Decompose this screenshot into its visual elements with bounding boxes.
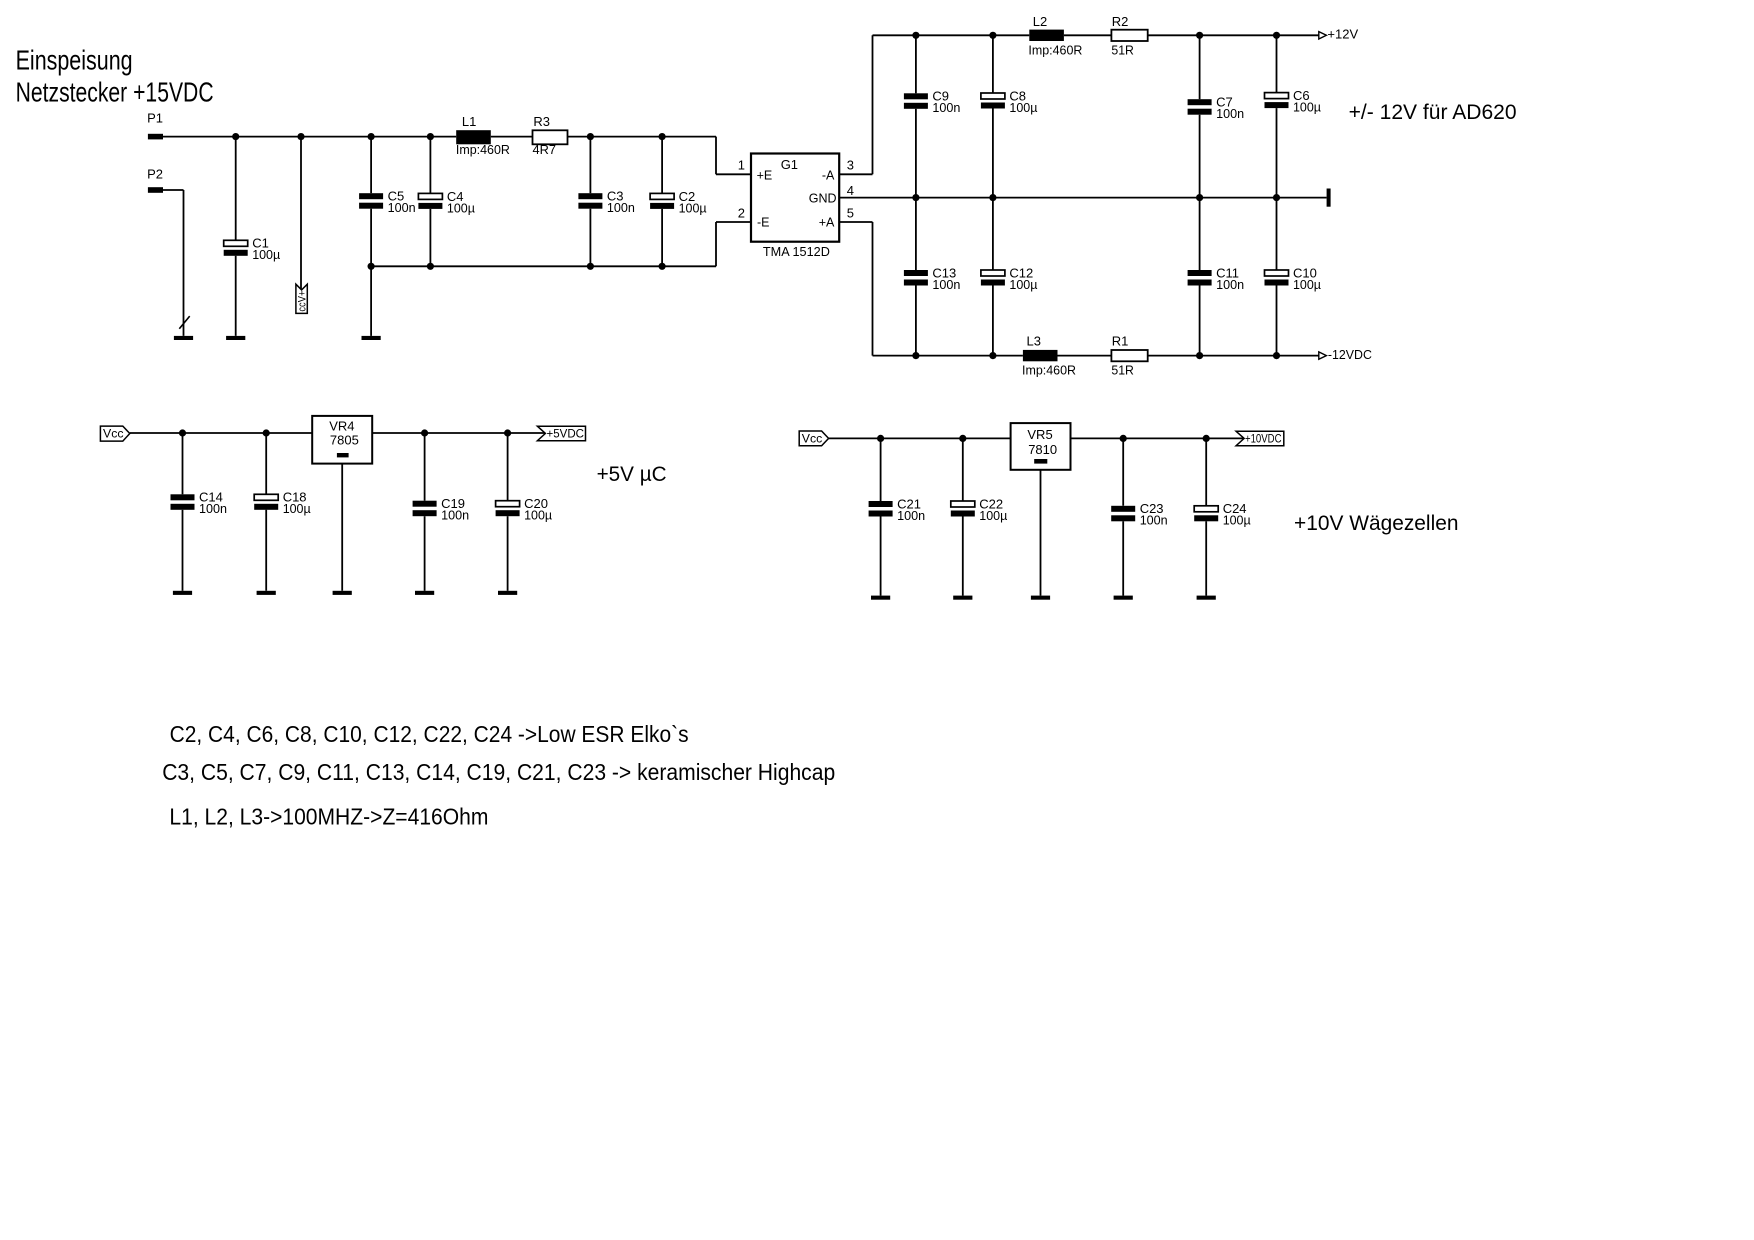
svg-text:100n: 100n	[199, 501, 227, 516]
svg-text:2: 2	[738, 205, 745, 220]
svg-text:R2: R2	[1112, 14, 1129, 29]
svg-text:100µ: 100µ	[252, 247, 280, 262]
svg-text:L3: L3	[1027, 334, 1041, 349]
svg-text:1: 1	[738, 158, 745, 173]
svg-text:GND: GND	[809, 191, 837, 205]
svg-text:+E: +E	[757, 168, 773, 182]
svg-text:Netzstecker +15VDC: Netzstecker +15VDC	[16, 76, 214, 107]
svg-text:L1: L1	[462, 114, 476, 129]
svg-text:100n: 100n	[932, 100, 960, 115]
svg-text:100n: 100n	[1216, 106, 1244, 121]
svg-text:Imp:460R: Imp:460R	[1022, 363, 1076, 378]
svg-text:100µ: 100µ	[1293, 100, 1321, 115]
svg-text:100n: 100n	[388, 200, 416, 215]
svg-text:Imp:460R: Imp:460R	[456, 142, 510, 157]
svg-text:100µ: 100µ	[679, 200, 707, 215]
svg-text:+/- 12V für AD620: +/- 12V für AD620	[1349, 101, 1517, 124]
svg-text:100µ: 100µ	[447, 200, 475, 215]
svg-text:100µ: 100µ	[283, 501, 311, 516]
svg-text:100n: 100n	[607, 200, 635, 215]
svg-text:100n: 100n	[1216, 277, 1244, 292]
svg-text:VR4: VR4	[329, 419, 354, 434]
svg-text:+5VDC: +5VDC	[547, 427, 585, 441]
svg-text:+10VDC: +10VDC	[1245, 434, 1282, 446]
svg-text:-12VDC: -12VDC	[1328, 347, 1372, 362]
svg-text:3: 3	[847, 158, 854, 173]
svg-text:P1: P1	[147, 110, 163, 125]
svg-text:100µ: 100µ	[1009, 100, 1037, 115]
svg-text:100n: 100n	[897, 508, 925, 523]
svg-text:+A: +A	[819, 215, 835, 229]
svg-text:P2: P2	[147, 166, 163, 181]
svg-text:100n: 100n	[441, 508, 469, 523]
svg-text:+5V µC: +5V µC	[597, 463, 667, 486]
svg-text:Imp:460R: Imp:460R	[1028, 43, 1082, 58]
svg-text:4R7: 4R7	[533, 142, 557, 157]
svg-text:L2: L2	[1033, 14, 1047, 29]
svg-text:5: 5	[847, 205, 854, 220]
svg-text:-A: -A	[822, 168, 835, 182]
svg-text:100µ: 100µ	[1009, 277, 1037, 292]
svg-text:+10V Wägezellen: +10V Wägezellen	[1294, 512, 1459, 535]
svg-text:Vcc: Vcc	[103, 427, 124, 441]
svg-text:VR5: VR5	[1027, 427, 1052, 442]
svg-text:C3, C5, C7, C9, C11, C13, C14,: C3, C5, C7, C9, C11, C13, C14, C19, C21,…	[162, 759, 835, 785]
svg-text:TMA 1512D: TMA 1512D	[763, 244, 830, 259]
svg-text:51R: 51R	[1111, 43, 1134, 58]
svg-text:100n: 100n	[932, 277, 960, 292]
svg-text:Einspeisung: Einspeisung	[16, 44, 133, 75]
svg-text:51R: 51R	[1111, 363, 1134, 378]
svg-text:-E: -E	[757, 215, 770, 229]
svg-text:100µ: 100µ	[979, 508, 1007, 523]
svg-text:7810: 7810	[1028, 442, 1057, 457]
svg-text:100µ: 100µ	[1293, 277, 1321, 292]
svg-text:ccV+: ccV+	[297, 291, 309, 312]
svg-text:R3: R3	[533, 114, 550, 129]
svg-text:+12V: +12V	[1327, 27, 1358, 42]
svg-text:100n: 100n	[1140, 513, 1168, 528]
svg-text:7805: 7805	[330, 433, 359, 448]
svg-text:G1: G1	[781, 157, 798, 172]
svg-text:Vcc: Vcc	[802, 432, 823, 446]
svg-text:L1, L2, L3->100MHZ->Z=416Ohm: L1, L2, L3->100MHZ->Z=416Ohm	[169, 803, 488, 829]
svg-text:100µ: 100µ	[1223, 513, 1251, 528]
svg-text:C2, C4, C6, C8, C10, C12, C22,: C2, C4, C6, C8, C10, C12, C22, C24 ->Low…	[170, 721, 689, 747]
svg-text:4: 4	[847, 183, 854, 198]
svg-text:R1: R1	[1112, 334, 1129, 349]
svg-text:100µ: 100µ	[524, 508, 552, 523]
